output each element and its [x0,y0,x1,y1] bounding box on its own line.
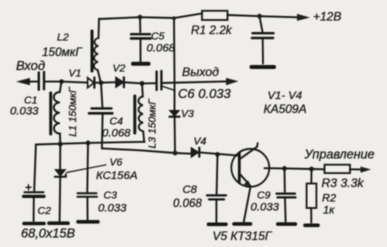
svg-text:C6 0.033: C6 0.033 [178,86,232,101]
svg-text:V1: V1 [69,68,82,80]
label C6 0.033 with pointer [163,87,175,91]
capacitor C8 [216,154,219,194]
svg-text:КС156А: КС156А [96,170,137,182]
diode V4 [191,148,198,157]
node R2 junction [309,167,314,172]
capacitor C1 [38,73,40,90]
svg-text:КА509А: КА509А [264,102,307,116]
svg-text:V4: V4 [194,136,207,148]
wire rail1 (C2/V6/C3 to L3 bottom) [36,142,145,145]
svg-text:L2: L2 [57,32,69,44]
wire R3 to control arrow [350,168,362,170]
svg-text:V2: V2 [113,63,126,75]
inductor L1 core bar [49,93,52,134]
resistor R2 [310,169,312,184]
svg-text:L3 150мкГ: L3 150мкГ [148,98,159,149]
transistor V5 collector [241,143,258,158]
svg-text:C8: C8 [183,184,198,196]
svg-text:68,0х15В: 68,0х15В [21,226,76,241]
capacitor C5 [139,17,141,32]
zener V6 [59,144,61,169]
svg-text:0.068: 0.068 [102,128,131,140]
ground bar under emitter [234,222,251,226]
wire rail2 (C4 bottom to V4 and base) [102,148,191,153]
node V3 bottom junction [173,151,178,156]
ground bar under C5 [133,62,149,66]
node V6 junction [58,142,63,147]
inductor L2 core bar [91,31,94,71]
ground bar under R2 [305,224,318,228]
svg-text:1к: 1к [323,205,335,217]
node input terminal arrow [16,78,30,85]
ground bar under C8 [209,223,227,227]
inductor L3 core bar [133,96,136,133]
capacitor C9 [284,168,286,192]
transistor V5 circle [231,149,269,187]
svg-text:C2: C2 [38,205,52,217]
label plus sign of C2 [26,185,31,190]
node C5-rail junction [138,15,143,20]
svg-text:V1- V4: V1- V4 [268,90,303,102]
svg-text:R3 3.3k: R3 3.3k [322,176,365,190]
ground bar under V6 [49,221,68,225]
svg-text:0.033: 0.033 [98,203,127,215]
svg-text:Выход: Выход [182,65,219,79]
svg-text:R2: R2 [322,193,336,205]
diode V3 zener [170,111,179,116]
node control arrowhead [361,167,372,173]
node bias tap on rail [172,16,176,20]
node B (V1/V2/L2/C4) [99,80,104,85]
transistor V5 emitter with arrow [241,175,251,187]
capacitor C7 decoupling at +12V [260,16,263,31]
svg-text:0.033: 0.033 [251,202,280,214]
wire input to C1 [27,81,38,83]
node C3 junction [86,141,91,146]
inductor L1 [54,82,62,144]
svg-text:V5 КТ315Г: V5 КТ315Г [213,229,273,243]
svg-text:Вход: Вход [16,58,45,73]
diode V1 [62,82,88,83]
svg-text:V6: V6 [110,157,123,169]
inductor L3 [138,83,144,141]
svg-text:C4: C4 [110,116,124,128]
node +12V arrowhead [297,14,310,21]
node base junction [215,152,220,157]
svg-text:R1 2.2k: R1 2.2k [191,23,233,37]
wire C6 to output arrow [162,81,231,83]
svg-text:C3: C3 [104,190,118,202]
wire bias line vertical (rail to V3) [173,18,176,110]
node C7-rail junction [257,14,262,19]
wire top rail right (R1 to +12V arrow) [228,15,303,17]
resistor R1 [202,11,228,20]
transistor V5 base bar [238,153,241,182]
ground bar under C2 [24,222,44,226]
resistor R3 [325,165,351,173]
svg-text:0.068: 0.068 [147,43,176,55]
wire top rail left (L2 top to R1) [99,13,202,19]
wire C1 to L1 node [45,81,62,83]
ground bar under C7 [252,65,275,69]
wire emitter-right line to control [265,168,325,169]
label V6 KS156A with pointer [67,165,107,173]
ground bar under C3 [78,220,98,224]
node output arrowhead [226,78,239,85]
svg-text:C9: C9 [257,190,271,202]
capacitor C6 [142,82,155,84]
svg-text:Управление: Управление [304,148,375,162]
svg-text:0.068: 0.068 [173,198,202,210]
diode V2 [101,81,116,84]
svg-text:150мкГ: 150мкГ [42,45,83,59]
svg-text:0.033: 0.033 [10,106,39,118]
node A (C1/L1/V1) [59,79,64,84]
node C9 junction [282,166,287,171]
ground bar under C9 [278,222,296,226]
svg-text:L1 150мкГ: L1 150мкГ [68,86,79,137]
capacitor C3 [86,143,89,192]
node C (V2/C6/L3) [140,81,145,86]
capacitor C2 electrolytic [34,145,36,192]
inductor L2 [94,19,101,82]
svg-text:+12В: +12В [313,9,341,23]
capacitor C4 [101,83,102,107]
svg-text:C5: C5 [151,31,165,43]
svg-text:V3: V3 [181,108,194,120]
